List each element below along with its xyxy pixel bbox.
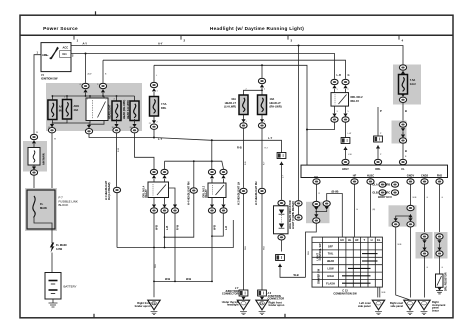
svg-text:BLOCK: BLOCK — [59, 203, 69, 207]
header separator line — [20, 34, 453, 36]
ground IE — [237, 300, 249, 314]
connector circle below link — [30, 165, 37, 188]
junction connector J7 — [239, 290, 248, 300]
svg-text:CND2: CND2 — [421, 173, 429, 177]
relay DRL NO.2 — [331, 93, 363, 107]
svg-text:HF: HF — [353, 173, 357, 177]
connector circle col 262 — [258, 188, 265, 290]
svg-text:COMBINATION SW: COMBINATION SW — [333, 292, 357, 296]
svg-text:A-Y: A-Y — [158, 41, 163, 45]
internal bus in fuse block — [52, 95, 134, 97]
wire relay D4 pin2 down — [164, 214, 166, 248]
inline connector 4K — [374, 136, 383, 159]
connector circle IG1 feed — [82, 83, 89, 96]
connector circle under HEAD RH fuse — [113, 119, 120, 133]
bus C wire — [103, 60, 346, 79]
svg-text:IGNITION SW: IGNITION SW — [41, 76, 58, 80]
connector circle HU out — [306, 210, 320, 277]
fuse HEAD LH-LWR — [239, 95, 248, 115]
body ECU connectors — [372, 182, 398, 199]
connector pair gray box CND2 — [416, 232, 433, 259]
DRL fuse column top circle — [150, 82, 157, 96]
ignition switch I5 — [37, 43, 75, 81]
svg-text:W: W — [54, 139, 56, 141]
svg-text:R-B: R-B — [237, 146, 242, 150]
fuse/relay block gray box — [46, 83, 142, 131]
ground EA — [256, 300, 268, 314]
svg-text:FL MAIN: FL MAIN — [56, 243, 67, 247]
fuse DRL 7.5A — [150, 97, 159, 117]
svg-text:(B-W): (B-W) — [332, 190, 339, 194]
svg-text:G: G — [348, 73, 350, 77]
svg-text:HL: HL — [348, 238, 352, 242]
svg-text:A/M MAIN: A/M MAIN — [42, 153, 45, 165]
svg-text:HRLY: HRLY — [342, 167, 349, 171]
svg-text:1J: 1J — [48, 127, 50, 129]
relay top pin CL — [399, 159, 406, 171]
svg-text:AM1: AM1 — [42, 53, 48, 57]
ruler tick 2 — [180, 35, 182, 39]
connector circle gnd out 1 — [392, 218, 409, 300]
fuse A/M left — [48, 100, 57, 120]
connector pair gray box FHD — [434, 232, 448, 259]
svg-text:HEAD-LT: HEAD-LT — [225, 101, 237, 105]
wire relay pin right down — [89, 121, 104, 128]
wire col 134.5 to relay D4 — [135, 133, 155, 169]
svg-text:HEAD (RH-UPR): HEAD (RH-UPR) — [123, 100, 126, 119]
svg-text:RELAY: RELAY — [351, 99, 360, 103]
svg-text:3.0W: 3.0W — [56, 247, 63, 251]
relay bottom pin CND2 — [421, 178, 428, 233]
connector circle indicator top — [278, 200, 285, 205]
resistor to ground — [436, 287, 443, 294]
right inline connector gray box — [392, 121, 407, 144]
svg-text:P: P — [380, 109, 382, 113]
connector circle HU pair b — [316, 194, 342, 238]
node L-Y tap to DRL relay 3 — [211, 139, 213, 141]
ground EB — [148, 300, 160, 314]
svg-text:HF: HF — [355, 238, 359, 242]
svg-text:FLASH: FLASH — [326, 281, 335, 285]
svg-text:W-B: W-B — [165, 277, 170, 281]
node bus A tap col 298.5 — [298, 45, 300, 47]
svg-text:R-W: R-W — [177, 224, 180, 230]
svg-text:DRL NO.2: DRL NO.2 — [351, 95, 364, 99]
svg-text:AM1: AM1 — [74, 104, 80, 108]
svg-text:LIGHT [COMB. METER]: LIGHT [COMB. METER] — [292, 201, 295, 229]
fuse AM1 — [63, 100, 72, 120]
svg-text:L-Y: L-Y — [158, 137, 162, 141]
svg-text:W-B: W-B — [214, 225, 217, 230]
high beam indicator light — [274, 200, 296, 234]
svg-text:RELAY: RELAY — [205, 189, 208, 198]
svg-text:headlight: headlight — [227, 303, 239, 307]
inline connector on indicator column — [277, 153, 286, 200]
connector circle top of right fuse — [399, 65, 406, 74]
ruler tick 1 — [73, 35, 75, 39]
svg-text:fender apron: fender apron — [135, 304, 151, 308]
relay bottom pin FHD — [436, 178, 443, 236]
daytime running light resistor — [436, 272, 448, 291]
ground EE — [418, 300, 430, 314]
relay bottom pin HLBC — [367, 178, 374, 237]
connector circle col52 — [48, 124, 55, 133]
relay DRL NO.4 — [143, 182, 169, 198]
svg-text:A-Y: A-Y — [83, 41, 88, 45]
svg-text:BRC: BRC — [385, 191, 391, 195]
connector circle pair right col — [399, 122, 406, 159]
daytime running light main relay box — [301, 165, 448, 177]
switch contact bars — [362, 253, 378, 255]
svg-text:EL: EL — [377, 238, 381, 242]
svg-text:L-Y: L-Y — [268, 136, 272, 140]
connector circle gnd in — [396, 205, 414, 218]
svg-text:W-B: W-B — [382, 292, 387, 294]
relay D4 side pin wire — [169, 188, 176, 205]
node HU merge — [315, 211, 317, 213]
svg-text:L-W: L-W — [348, 133, 352, 135]
fuse HEAD RH — [112, 101, 121, 121]
svg-text:FHD: FHD — [437, 173, 442, 177]
fusible link splice FL MAIN — [50, 243, 55, 253]
ground under battery — [49, 299, 58, 307]
svg-text:L-W: L-W — [348, 154, 352, 156]
svg-text:A-W: A-W — [88, 73, 92, 76]
svg-text:CONNECTOR: CONNECTOR — [268, 297, 285, 301]
svg-text:BODY ECU: BODY ECU — [378, 195, 392, 199]
svg-text:HEAD: HEAD — [327, 259, 334, 263]
svg-text:HEAD-LT: HEAD-LT — [270, 101, 282, 105]
right DRL fuse gray box — [393, 65, 421, 105]
svg-text:(B): (B) — [373, 209, 376, 211]
svg-text:L-R: L-R — [225, 226, 228, 230]
connector circle bus B feed — [99, 83, 106, 96]
wire relay NO.2 pin4 to GRLY — [345, 123, 347, 138]
wire ACC bus A — [71, 46, 403, 65]
connector circle under DRL fuse — [150, 116, 157, 129]
connector circle above link — [30, 134, 37, 147]
svg-text:HLBC: HLBC — [367, 173, 374, 177]
relay bottom pin HF — [351, 178, 358, 237]
connector circle C11 — [295, 206, 302, 220]
relay D4 bottom circles — [150, 198, 157, 214]
relay D3 top connector circles — [208, 169, 215, 183]
wire col 116.5 down — [116, 133, 118, 187]
connector circle gnd out 2 — [407, 218, 414, 297]
svg-text:10A: 10A — [231, 97, 236, 101]
wire relay pin to col 52 — [52, 121, 90, 124]
svg-text:TAIL: TAIL — [328, 252, 334, 256]
svg-text:HIGH: HIGH — [327, 274, 334, 278]
svg-text:H 3 HEADLIGHT RH: H 3 HEADLIGHT RH — [255, 181, 258, 205]
relay bottom pin GNDY — [407, 178, 414, 205]
ground split gray box — [389, 205, 417, 226]
wire loop relay D3 — [211, 235, 213, 237]
ruler tick 3 — [287, 35, 289, 39]
wire DRL fuse to indicator (diagonal) — [154, 130, 282, 153]
headlight relay — [86, 98, 114, 121]
svg-text:DRL RESISTOR: DRL RESISTOR — [444, 272, 447, 291]
connector circle col 194 — [190, 160, 197, 193]
connector circle below right fuse — [399, 94, 406, 122]
svg-text:Power Source: Power Source — [43, 26, 78, 31]
svg-text:CONNECTOR: CONNECTOR — [222, 292, 239, 296]
svg-text:side panel: side panel — [358, 304, 371, 308]
connector circle above fuse RH-LWR — [258, 78, 265, 95]
svg-text:GLA: GLA — [372, 183, 378, 187]
svg-text:RELAY: RELAY — [145, 189, 148, 198]
bottom border section tick — [93, 314, 95, 318]
svg-text:W-B: W-B — [294, 273, 299, 277]
relay bottom pin HU — [313, 178, 320, 201]
relay D3 bottom circles — [208, 198, 215, 214]
svg-text:GAU: GAU — [410, 82, 416, 86]
tiny pin and wire code labels — [36, 73, 444, 295]
wire block to battery with fusible link splice — [51, 231, 53, 243]
wire relay NO.2 pin3 to bus D column — [307, 123, 335, 130]
svg-text:brace: brace — [432, 308, 439, 312]
svg-text:W-B: W-B — [245, 245, 247, 250]
svg-text:CL: CL — [401, 167, 405, 171]
svg-text:W-B: W-B — [155, 225, 158, 230]
wire relay D4 pin1 down to ground — [153, 214, 155, 298]
svg-text:L-R: L-R — [337, 73, 341, 77]
svg-text:BATTERY: BATTERY — [64, 285, 77, 289]
svg-text:OFF: OFF — [328, 244, 334, 248]
connector circle below fuse RH-LWR — [258, 115, 265, 188]
wire col 378 — [377, 107, 379, 136]
svg-text:RH (LO BEAM): RH (LO BEAM) — [108, 182, 111, 200]
fusible link AM gray box — [23, 141, 47, 172]
svg-text:H 2 HEADLIGHT LH: H 2 HEADLIGHT LH — [237, 182, 240, 205]
svg-text:EB: EB — [152, 301, 156, 305]
inline connector 4J — [341, 138, 350, 159]
connector circle col116 — [113, 187, 120, 247]
svg-text:GLB: GLB — [372, 191, 378, 195]
connector circle under relay — [85, 125, 92, 134]
relay top pin DRL — [374, 159, 381, 171]
bottom border section tick 2 — [284, 314, 286, 318]
svg-text:L-B: L-B — [166, 226, 169, 230]
svg-text:(RH-LWR): (RH-LWR) — [270, 105, 282, 109]
svg-text:DIMMER SW: DIMMER SW — [318, 268, 321, 284]
wire AM1 to fusible link column — [34, 55, 41, 134]
svg-text:(LH-LWR): (LH-LWR) — [224, 105, 236, 109]
svg-text:fender apron: fender apron — [269, 303, 285, 307]
combination switch table — [312, 237, 382, 287]
fuse HEAD RH-LWR — [258, 95, 267, 115]
junction gray box under HU — [306, 202, 330, 223]
wire relay D3 pin1 down — [211, 214, 213, 282]
battery — [45, 273, 77, 300]
svg-text:side panel: side panel — [390, 304, 403, 308]
svg-text:W-B: W-B — [413, 197, 418, 199]
ground bus 2 — [154, 280, 212, 282]
svg-text:EA: EA — [260, 301, 264, 305]
connector circle col 243.5 — [240, 188, 247, 290]
svg-text:H: H — [371, 238, 373, 242]
svg-text:GNDY: GNDY — [407, 173, 415, 177]
junction connector J3 — [258, 290, 267, 300]
fusible link AM — [28, 148, 45, 166]
fusible link block P7 — [25, 188, 78, 231]
wire table EL to ground — [377, 287, 379, 297]
svg-text:BRB: BRB — [385, 183, 391, 187]
fuse 7.5A GAUGE — [399, 75, 408, 95]
wire col52 down to fusible link block — [51, 133, 53, 188]
connector circle HU pair a — [313, 201, 320, 210]
top border section tick — [95, 11, 97, 15]
connector circle under HEAD LH fuse — [131, 119, 138, 133]
svg-text:R-W: R-W — [118, 148, 120, 152]
svg-text:W-B: W-B — [186, 277, 191, 281]
ground ED — [372, 300, 384, 314]
connector circle indicator bottom — [278, 235, 285, 252]
ground bus 1 — [117, 220, 233, 248]
wire relay D4 pin3 down — [174, 214, 176, 282]
svg-text:FL: FL — [40, 202, 44, 206]
svg-text:HU: HU — [340, 238, 344, 242]
svg-text:IG1: IG1 — [63, 52, 68, 56]
inline connector IF1 — [276, 255, 306, 278]
svg-text:MAIN: MAIN — [40, 206, 47, 210]
relay top pin GRLY — [342, 159, 349, 171]
svg-text:B: B — [405, 149, 407, 153]
svg-text:W-B: W-B — [264, 245, 266, 250]
svg-text:H 4 HEADLIGHT RH: H 4 HEADLIGHT RH — [188, 181, 191, 205]
relay NO.2 bottom circles — [331, 106, 338, 122]
fuse HEAD LH — [130, 101, 139, 121]
DRL NO.2 relay top circles — [331, 79, 338, 92]
relay DRL NO.3 — [202, 183, 226, 198]
wire loop to connector circle col 194 — [164, 236, 166, 238]
ruler tick 4 — [398, 35, 400, 39]
svg-text:W-B: W-B — [308, 250, 310, 255]
ground EC — [404, 300, 416, 314]
svg-text:10A: 10A — [270, 97, 275, 101]
svg-text:7.5A: 7.5A — [410, 78, 416, 82]
svg-text:40A: 40A — [74, 108, 79, 112]
svg-text:W-B: W-B — [155, 263, 157, 268]
svg-text:DRL: DRL — [375, 167, 381, 171]
svg-text:W: W — [36, 132, 38, 134]
svg-text:Headlight (w/ Daytime Running: Headlight (w/ Daytime Running Light) — [210, 26, 304, 31]
connector circle C10 — [295, 201, 302, 206]
relay D4 top connector circles — [150, 169, 157, 182]
svg-text:ACC: ACC — [63, 46, 69, 50]
fuse feed split — [244, 90, 263, 95]
svg-text:DRL: DRL — [161, 106, 167, 110]
svg-text:LOW: LOW — [327, 267, 334, 271]
svg-text:W-B: W-B — [398, 244, 403, 246]
svg-text:CONTROL SW: CONTROL SW — [319, 243, 322, 261]
bus D wire — [154, 65, 307, 165]
connector circle below fuse LH-LWR — [240, 115, 247, 188]
node bus D tap — [261, 64, 263, 66]
svg-text:7.5A: 7.5A — [161, 102, 167, 106]
wire fuse AM1 bottom to col 52 — [52, 119, 67, 127]
svg-text:B: B — [405, 109, 407, 113]
wire IG1 bus B — [71, 54, 335, 79]
